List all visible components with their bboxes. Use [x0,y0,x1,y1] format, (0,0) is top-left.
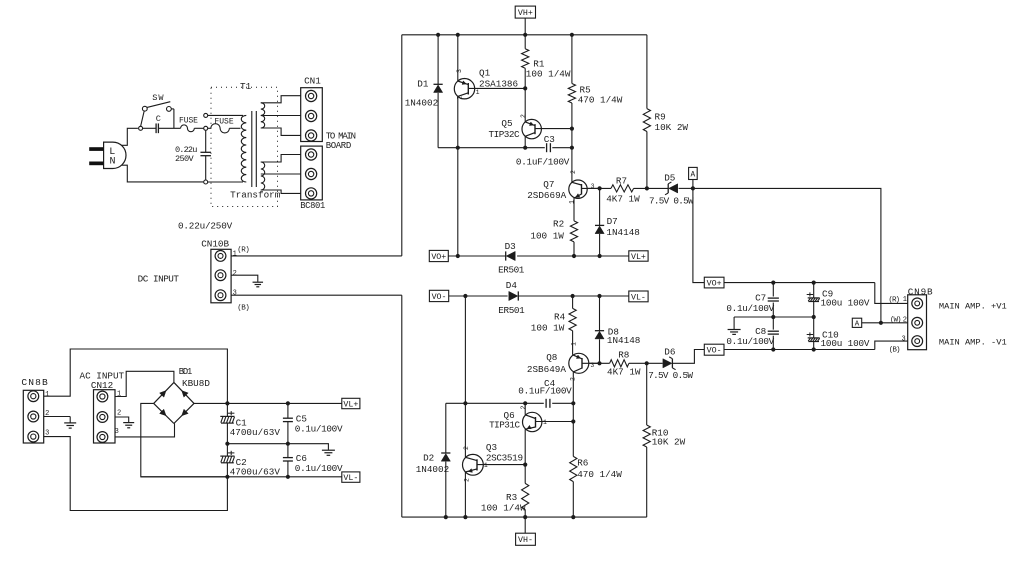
svg-text:(B): (B) [889,347,900,355]
svg-text:A: A [855,320,860,328]
svg-text:(R): (R) [888,296,899,304]
svg-text:250V: 250V [175,154,194,164]
svg-text:470 1/4W: 470 1/4W [577,469,622,480]
svg-text:7.5V 0.5W: 7.5V 0.5W [649,195,694,206]
svg-text:SW: SW [152,93,164,103]
svg-text:R3: R3 [506,492,517,503]
svg-text:3: 3 [902,335,906,343]
svg-text:D4: D4 [506,280,518,291]
svg-text:CN10B: CN10B [201,238,229,249]
svg-text:VH-: VH- [518,536,533,545]
svg-text:1: 1 [233,250,237,258]
svg-text:D1: D1 [417,78,429,89]
svg-text:FUSE: FUSE [179,117,198,126]
svg-text:R4: R4 [554,311,566,322]
svg-text:1N4148: 1N4148 [607,335,640,346]
svg-text:100u 100V: 100u 100V [821,297,870,308]
svg-text:R7: R7 [616,176,627,187]
svg-text:10K 2W: 10K 2W [655,122,689,133]
svg-text:MAIN AMP. +V1: MAIN AMP. +V1 [939,301,1007,311]
svg-text:1N4148: 1N4148 [606,227,639,238]
svg-text:0.1u/100V: 0.1u/100V [726,303,774,314]
svg-text:2: 2 [570,170,577,174]
svg-text:7.5V 0.5W: 7.5V 0.5W [648,370,693,381]
svg-text:VH+: VH+ [518,9,533,18]
svg-text:C7: C7 [755,292,766,303]
svg-text:3: 3 [233,289,237,297]
svg-text:1: 1 [543,419,547,426]
svg-text:4K7 1W: 4K7 1W [607,367,641,378]
svg-text:A: A [691,171,696,179]
svg-text:Transform: Transform [230,189,281,200]
svg-text:1: 1 [569,200,576,204]
svg-text:N: N [110,157,116,168]
svg-text:VO-: VO- [432,293,447,302]
svg-text:2SD669A: 2SD669A [527,190,566,201]
svg-text:2SB649A: 2SB649A [527,364,566,375]
svg-text:10K 2W: 10K 2W [652,437,686,448]
svg-text:4700u/63V: 4700u/63V [230,466,281,477]
svg-text:(W): (W) [890,317,901,325]
svg-text:BOARD: BOARD [326,141,351,151]
svg-text:VL-: VL- [343,474,358,483]
svg-text:TO MAIN: TO MAIN [326,131,356,141]
svg-text:2SC3519: 2SC3519 [486,452,523,463]
svg-text:2: 2 [570,377,577,381]
svg-text:100 1/4W: 100 1/4W [526,68,571,79]
svg-text:100 1/4W: 100 1/4W [481,503,526,514]
svg-text:VO+: VO+ [431,253,446,262]
svg-text:Q8: Q8 [546,352,557,363]
svg-text:BD1: BD1 [179,367,192,377]
svg-text:1: 1 [903,296,907,304]
svg-text:D2: D2 [423,452,434,463]
svg-text:C: C [156,114,161,124]
svg-text:0.1u/100V: 0.1u/100V [726,336,774,347]
svg-text:1: 1 [476,89,480,96]
svg-text:0.22u/250V: 0.22u/250V [178,221,233,232]
svg-text:VL-: VL- [631,293,646,302]
svg-text:(B): (B) [237,304,249,312]
svg-text:0.1uF/100V: 0.1uF/100V [516,156,570,167]
svg-text:0.1uF/100V: 0.1uF/100V [518,385,572,396]
svg-text:Q5: Q5 [501,118,512,129]
svg-text:2: 2 [520,114,527,118]
svg-text:Q1: Q1 [479,68,491,79]
svg-text:2SA1386: 2SA1386 [479,78,518,89]
svg-text:2: 2 [520,406,527,410]
svg-text:2: 2 [233,270,237,278]
svg-text:VO+: VO+ [707,280,722,289]
svg-text:R8: R8 [618,350,629,361]
svg-text:3: 3 [115,428,119,436]
svg-text:100u 100V: 100u 100V [821,338,870,349]
svg-text:1N4002: 1N4002 [405,98,438,109]
svg-text:1: 1 [117,390,121,398]
svg-text:CN8B: CN8B [21,377,49,388]
svg-text:Q7: Q7 [543,179,554,190]
svg-text:KBU8D: KBU8D [182,378,210,389]
svg-text:1N4002: 1N4002 [416,464,449,475]
svg-text:TIP32C: TIP32C [489,129,520,140]
svg-text:D7: D7 [607,216,618,227]
svg-text:R9: R9 [655,112,666,123]
svg-text:1: 1 [571,342,578,346]
svg-text:2: 2 [464,478,471,482]
svg-text:100 1W: 100 1W [530,230,564,241]
svg-text:MAIN AMP. -V1: MAIN AMP. -V1 [939,338,1007,348]
svg-text:4700u/63V: 4700u/63V [230,427,281,438]
svg-text:C3: C3 [544,134,555,145]
svg-text:CN9B: CN9B [908,286,934,297]
svg-text:R2: R2 [553,218,564,229]
svg-text:2: 2 [117,410,121,418]
svg-text:ER501: ER501 [498,264,525,275]
svg-text:(R): (R) [237,246,249,254]
svg-text:2: 2 [456,96,463,100]
svg-text:BC801: BC801 [300,201,325,211]
svg-text:D5: D5 [664,172,675,183]
svg-text:D3: D3 [505,241,516,252]
svg-text:0.1u/100V: 0.1u/100V [295,424,343,435]
svg-text:T1: T1 [240,81,252,92]
svg-text:DC INPUT: DC INPUT [138,273,180,284]
svg-text:100 1W: 100 1W [531,323,565,334]
svg-text:VL+: VL+ [343,400,358,409]
svg-text:4K7 1W: 4K7 1W [606,193,640,204]
svg-text:CN1: CN1 [304,75,321,86]
svg-text:R6: R6 [577,457,588,468]
svg-text:470 1/4W: 470 1/4W [578,94,623,105]
svg-text:FUSE: FUSE [214,118,233,127]
svg-text:VO-: VO- [707,347,722,356]
svg-text:D6: D6 [664,347,675,358]
svg-text:3: 3 [456,69,463,73]
svg-text:2: 2 [903,316,907,324]
svg-text:ER501: ER501 [498,305,525,316]
svg-text:VL+: VL+ [631,253,646,262]
svg-text:1: 1 [45,391,49,399]
svg-text:2: 2 [463,446,470,450]
svg-text:0.1u/100V: 0.1u/100V [295,463,343,474]
svg-text:TIP31C: TIP31C [489,420,520,431]
